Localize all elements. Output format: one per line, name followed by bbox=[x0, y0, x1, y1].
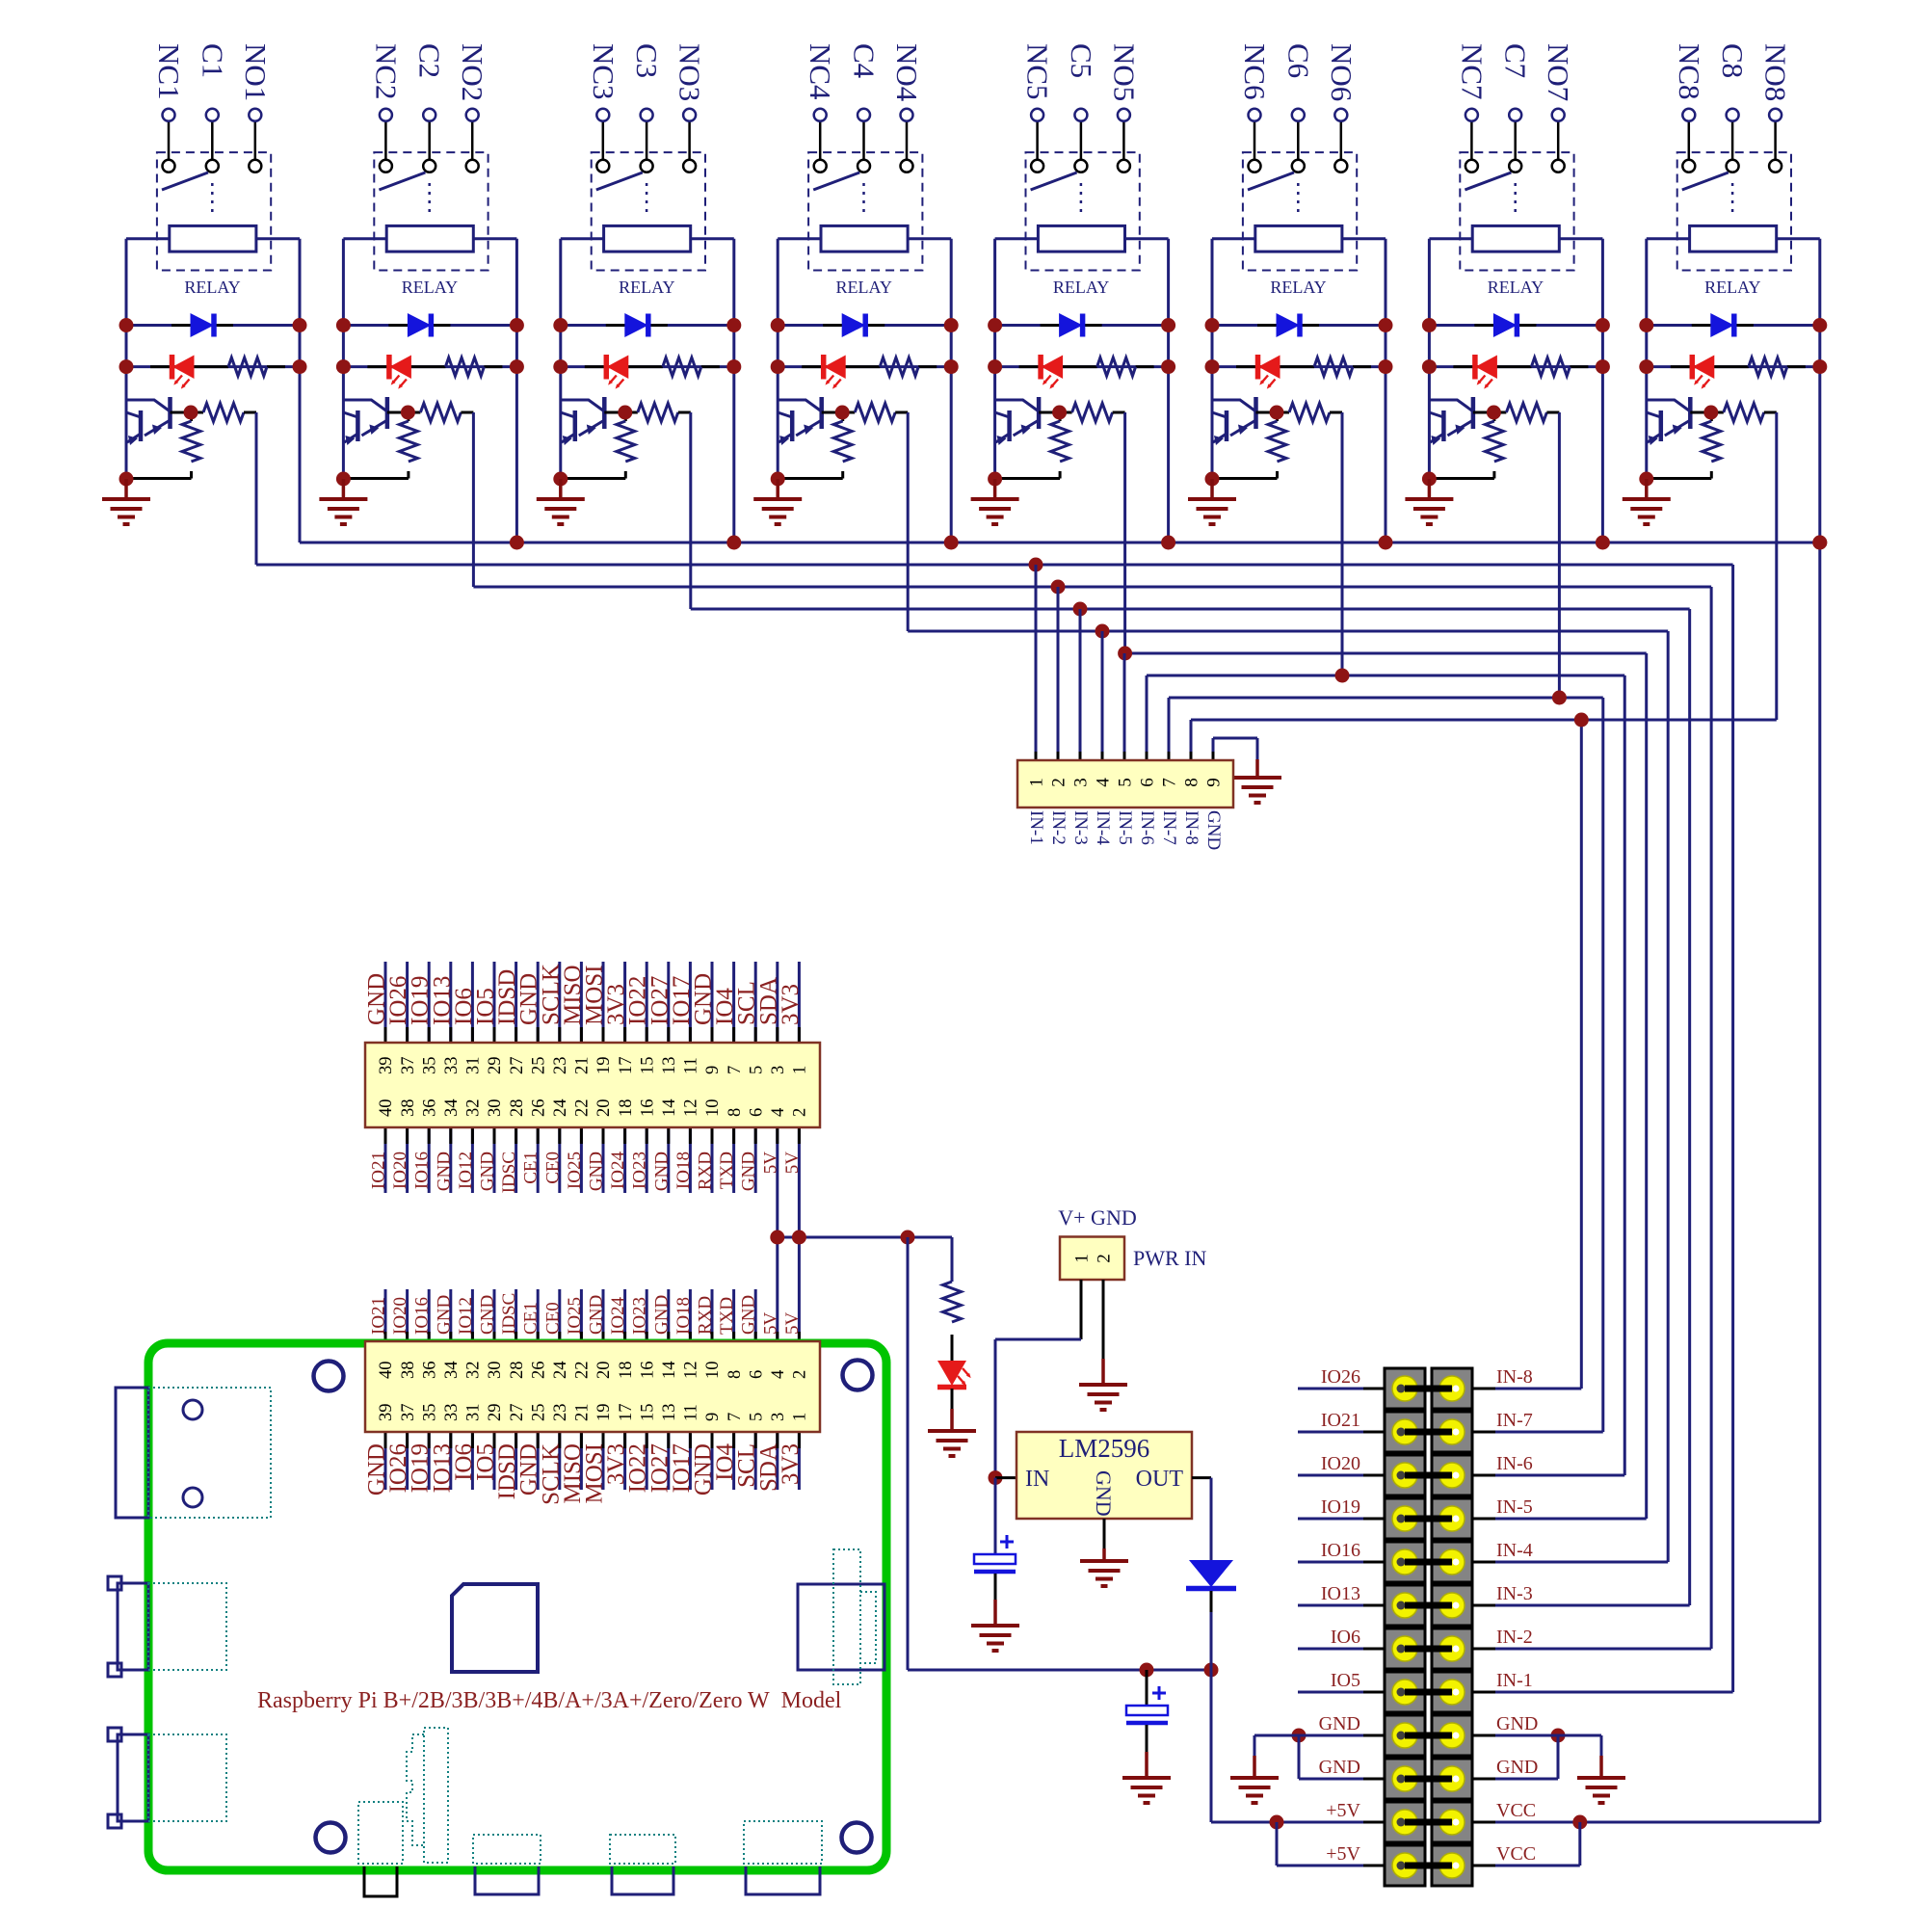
svg-text:GND: GND bbox=[478, 1151, 498, 1191]
svg-text:CE1: CE1 bbox=[521, 1151, 541, 1184]
svg-text:IO20: IO20 bbox=[1321, 1453, 1360, 1474]
svg-text:4: 4 bbox=[769, 1370, 788, 1379]
svg-text:38: 38 bbox=[399, 1099, 418, 1118]
svg-text:2: 2 bbox=[791, 1108, 810, 1117]
svg-text:9: 9 bbox=[703, 1413, 723, 1421]
svg-text:GND: GND bbox=[587, 1151, 607, 1191]
svg-text:34: 34 bbox=[442, 1099, 462, 1118]
svg-text:30: 30 bbox=[486, 1099, 505, 1118]
svg-text:NC7: NC7 bbox=[1455, 43, 1489, 100]
svg-text:5V: 5V bbox=[782, 1151, 803, 1175]
svg-text:NO6: NO6 bbox=[1325, 43, 1359, 101]
svg-text:IO12: IO12 bbox=[456, 1297, 476, 1335]
svg-text:3: 3 bbox=[1071, 778, 1092, 787]
svg-text:GND: GND bbox=[1092, 1470, 1116, 1517]
svg-text:IO12: IO12 bbox=[456, 1151, 476, 1189]
svg-text:GND: GND bbox=[1496, 1713, 1538, 1734]
svg-text:IN-8: IN-8 bbox=[1181, 810, 1201, 845]
svg-text:NC8: NC8 bbox=[1673, 43, 1706, 100]
svg-text:16: 16 bbox=[638, 1362, 657, 1380]
svg-text:NO1: NO1 bbox=[239, 43, 273, 101]
svg-text:IO16: IO16 bbox=[412, 1297, 433, 1335]
svg-text:IN-6: IN-6 bbox=[1496, 1453, 1533, 1474]
svg-text:35: 35 bbox=[420, 1404, 439, 1422]
svg-text:23: 23 bbox=[551, 1057, 570, 1075]
svg-text:C3: C3 bbox=[630, 43, 664, 78]
svg-text:GND: GND bbox=[587, 1295, 607, 1335]
svg-text:2: 2 bbox=[1049, 778, 1069, 787]
svg-text:18: 18 bbox=[617, 1099, 636, 1118]
svg-text:34: 34 bbox=[442, 1362, 462, 1380]
svg-text:22: 22 bbox=[573, 1362, 593, 1380]
svg-text:IO24: IO24 bbox=[608, 1151, 628, 1190]
svg-text:7: 7 bbox=[726, 1413, 745, 1421]
svg-text:19: 19 bbox=[594, 1404, 614, 1422]
svg-text:40: 40 bbox=[377, 1362, 396, 1380]
svg-text:37: 37 bbox=[399, 1057, 418, 1075]
svg-text:26: 26 bbox=[529, 1099, 548, 1118]
svg-text:IN: IN bbox=[1025, 1467, 1049, 1492]
svg-text:8: 8 bbox=[1182, 778, 1202, 787]
svg-text:39: 39 bbox=[377, 1057, 396, 1075]
svg-text:38: 38 bbox=[399, 1362, 418, 1380]
svg-text:20: 20 bbox=[594, 1099, 614, 1118]
svg-text:RXD: RXD bbox=[696, 1296, 716, 1335]
svg-text:IO13: IO13 bbox=[1321, 1583, 1360, 1604]
svg-text:1: 1 bbox=[791, 1413, 810, 1421]
svg-text:39: 39 bbox=[377, 1404, 396, 1422]
svg-text:+5V: +5V bbox=[1326, 1800, 1360, 1821]
svg-text:36: 36 bbox=[420, 1362, 439, 1380]
svg-text:C8: C8 bbox=[1716, 43, 1750, 78]
svg-text:TXD: TXD bbox=[717, 1151, 737, 1189]
svg-text:IN-5: IN-5 bbox=[1496, 1496, 1533, 1518]
svg-text:IN-3: IN-3 bbox=[1496, 1583, 1533, 1604]
svg-text:IN-2: IN-2 bbox=[1496, 1627, 1533, 1648]
svg-text:8: 8 bbox=[726, 1108, 745, 1117]
svg-text:IO18: IO18 bbox=[673, 1151, 694, 1189]
svg-text:C1: C1 bbox=[196, 43, 229, 78]
svg-text:GND: GND bbox=[1203, 810, 1224, 850]
svg-text:28: 28 bbox=[508, 1099, 527, 1118]
svg-text:LM2596: LM2596 bbox=[1059, 1434, 1150, 1463]
svg-text:5V: 5V bbox=[760, 1312, 780, 1336]
svg-text:NO5: NO5 bbox=[1107, 43, 1141, 101]
svg-text:IN-4: IN-4 bbox=[1093, 810, 1113, 845]
svg-text:IO16: IO16 bbox=[412, 1151, 433, 1189]
svg-text:IO18: IO18 bbox=[673, 1297, 694, 1335]
svg-text:IO26: IO26 bbox=[1321, 1366, 1360, 1388]
svg-text:IO25: IO25 bbox=[565, 1151, 585, 1189]
svg-text:2: 2 bbox=[1095, 1254, 1115, 1263]
svg-text:26: 26 bbox=[529, 1362, 548, 1380]
svg-text:GND: GND bbox=[1319, 1757, 1360, 1778]
svg-text:TXD: TXD bbox=[717, 1297, 737, 1335]
svg-text:IN-7: IN-7 bbox=[1496, 1410, 1533, 1431]
svg-text:22: 22 bbox=[573, 1099, 593, 1118]
svg-text:25: 25 bbox=[529, 1404, 548, 1422]
svg-text:12: 12 bbox=[682, 1099, 701, 1118]
svg-text:IDSC: IDSC bbox=[499, 1151, 519, 1193]
svg-text:IO23: IO23 bbox=[630, 1297, 650, 1335]
svg-text:NC6: NC6 bbox=[1238, 43, 1272, 100]
svg-text:IO21: IO21 bbox=[369, 1151, 389, 1189]
svg-text:4: 4 bbox=[769, 1108, 788, 1117]
svg-text:IO24: IO24 bbox=[608, 1296, 628, 1335]
svg-text:5: 5 bbox=[1116, 778, 1136, 787]
svg-text:9: 9 bbox=[1204, 778, 1225, 787]
svg-text:11: 11 bbox=[682, 1057, 701, 1074]
svg-text:GND: GND bbox=[434, 1151, 454, 1191]
svg-text:16: 16 bbox=[638, 1099, 657, 1118]
svg-text:VCC: VCC bbox=[1496, 1843, 1536, 1865]
svg-text:14: 14 bbox=[660, 1362, 679, 1380]
svg-text:15: 15 bbox=[638, 1057, 657, 1075]
svg-text:CE1: CE1 bbox=[521, 1302, 541, 1335]
svg-text:GND: GND bbox=[739, 1151, 759, 1191]
svg-text:IO16: IO16 bbox=[1321, 1540, 1360, 1561]
svg-text:C5: C5 bbox=[1065, 43, 1098, 78]
svg-text:4: 4 bbox=[1094, 778, 1114, 787]
svg-text:GND: GND bbox=[651, 1295, 672, 1335]
svg-text:CE0: CE0 bbox=[542, 1302, 563, 1335]
svg-text:IN-5: IN-5 bbox=[1115, 810, 1135, 845]
svg-text:32: 32 bbox=[464, 1362, 484, 1380]
svg-text:NC5: NC5 bbox=[1021, 43, 1055, 100]
svg-text:GND: GND bbox=[478, 1295, 498, 1335]
svg-text:36: 36 bbox=[420, 1099, 439, 1118]
svg-text:6: 6 bbox=[1138, 778, 1158, 787]
svg-text:NO8: NO8 bbox=[1759, 43, 1793, 101]
svg-text:1: 1 bbox=[1027, 778, 1047, 787]
svg-text:PWR IN: PWR IN bbox=[1133, 1246, 1207, 1270]
svg-text:37: 37 bbox=[399, 1404, 418, 1422]
svg-text:10: 10 bbox=[703, 1099, 723, 1118]
svg-text:25: 25 bbox=[529, 1057, 548, 1075]
svg-text:IO21: IO21 bbox=[369, 1297, 389, 1335]
svg-text:IO25: IO25 bbox=[565, 1297, 585, 1335]
svg-text:NO7: NO7 bbox=[1542, 43, 1575, 101]
svg-text:23: 23 bbox=[551, 1404, 570, 1422]
svg-text:IO6: IO6 bbox=[1331, 1627, 1360, 1648]
svg-text:VCC: VCC bbox=[1496, 1800, 1536, 1821]
svg-text:NC1: NC1 bbox=[152, 43, 186, 100]
svg-text:15: 15 bbox=[638, 1404, 657, 1422]
svg-text:7: 7 bbox=[726, 1066, 745, 1074]
svg-text:IO20: IO20 bbox=[390, 1151, 410, 1189]
svg-text:14: 14 bbox=[660, 1099, 679, 1118]
svg-text:3V3: 3V3 bbox=[778, 984, 804, 1025]
svg-text:27: 27 bbox=[508, 1404, 527, 1422]
svg-text:IN-6: IN-6 bbox=[1137, 810, 1157, 845]
svg-text:NC3: NC3 bbox=[587, 43, 620, 100]
svg-text:IN-3: IN-3 bbox=[1070, 810, 1091, 845]
svg-text:GND: GND bbox=[434, 1295, 454, 1335]
svg-text:C6: C6 bbox=[1281, 43, 1315, 78]
svg-text:5V: 5V bbox=[760, 1151, 780, 1175]
svg-text:17: 17 bbox=[617, 1404, 636, 1422]
svg-text:IN-1: IN-1 bbox=[1496, 1670, 1533, 1691]
svg-text:2: 2 bbox=[791, 1370, 810, 1379]
svg-text:7: 7 bbox=[1160, 778, 1180, 787]
svg-text:NC4: NC4 bbox=[804, 43, 837, 100]
svg-text:1: 1 bbox=[1072, 1254, 1093, 1263]
svg-text:C2: C2 bbox=[413, 43, 447, 78]
svg-text:32: 32 bbox=[464, 1099, 484, 1118]
svg-text:21: 21 bbox=[573, 1057, 593, 1075]
svg-text:11: 11 bbox=[682, 1404, 701, 1421]
svg-text:OUT: OUT bbox=[1136, 1467, 1184, 1492]
svg-text:C7: C7 bbox=[1499, 43, 1533, 78]
svg-text:5V: 5V bbox=[782, 1312, 803, 1336]
svg-text:3V3: 3V3 bbox=[778, 1443, 804, 1485]
svg-text:28: 28 bbox=[508, 1362, 527, 1380]
svg-text:RXD: RXD bbox=[696, 1151, 716, 1190]
svg-text:35: 35 bbox=[420, 1057, 439, 1075]
svg-text:GND: GND bbox=[1496, 1757, 1538, 1778]
svg-text:3: 3 bbox=[769, 1413, 788, 1421]
svg-text:+5V: +5V bbox=[1326, 1843, 1360, 1865]
svg-text:NO2: NO2 bbox=[456, 43, 489, 101]
svg-text:5: 5 bbox=[747, 1066, 766, 1074]
svg-text:33: 33 bbox=[442, 1404, 462, 1422]
svg-text:9: 9 bbox=[703, 1066, 723, 1074]
svg-text:31: 31 bbox=[464, 1404, 484, 1422]
svg-text:CE0: CE0 bbox=[542, 1151, 563, 1184]
svg-text:24: 24 bbox=[551, 1362, 570, 1380]
svg-text:GND: GND bbox=[739, 1295, 759, 1335]
svg-text:6: 6 bbox=[747, 1108, 766, 1117]
svg-text:10: 10 bbox=[703, 1362, 723, 1380]
svg-text:13: 13 bbox=[660, 1057, 679, 1075]
svg-text:29: 29 bbox=[486, 1057, 505, 1075]
svg-text:40: 40 bbox=[377, 1099, 396, 1118]
svg-text:12: 12 bbox=[682, 1362, 701, 1380]
svg-text:IN-4: IN-4 bbox=[1496, 1540, 1533, 1561]
svg-text:IN-7: IN-7 bbox=[1159, 810, 1179, 845]
svg-text:29: 29 bbox=[486, 1404, 505, 1422]
svg-text:IDSC: IDSC bbox=[499, 1293, 519, 1335]
svg-text:IN-2: IN-2 bbox=[1048, 810, 1069, 845]
svg-text:IN-8: IN-8 bbox=[1496, 1366, 1533, 1388]
svg-text:IO20: IO20 bbox=[390, 1297, 410, 1335]
svg-text:31: 31 bbox=[464, 1057, 484, 1075]
svg-text:19: 19 bbox=[594, 1057, 614, 1075]
svg-text:IO19: IO19 bbox=[1321, 1496, 1360, 1518]
svg-text:NO4: NO4 bbox=[890, 43, 924, 102]
svg-text:GND: GND bbox=[651, 1151, 672, 1191]
svg-text:Raspberry Pi B+/2B/3B/3B+/4B/A: Raspberry Pi B+/2B/3B/3B+/4B/A+/3A+/Zero… bbox=[257, 1688, 842, 1713]
svg-text:13: 13 bbox=[660, 1404, 679, 1422]
svg-text:18: 18 bbox=[617, 1362, 636, 1380]
svg-text:IO5: IO5 bbox=[1331, 1670, 1360, 1691]
svg-text:21: 21 bbox=[573, 1404, 593, 1422]
svg-text:6: 6 bbox=[747, 1370, 766, 1379]
svg-text:1: 1 bbox=[791, 1066, 810, 1074]
svg-text:20: 20 bbox=[594, 1362, 614, 1380]
svg-text:IN-1: IN-1 bbox=[1026, 810, 1046, 845]
svg-text:27: 27 bbox=[508, 1057, 527, 1075]
svg-text:5: 5 bbox=[747, 1413, 766, 1421]
svg-text:C4: C4 bbox=[848, 43, 882, 79]
svg-text:17: 17 bbox=[617, 1057, 636, 1075]
svg-text:3: 3 bbox=[769, 1066, 788, 1074]
svg-text:33: 33 bbox=[442, 1057, 462, 1075]
svg-text:IO21: IO21 bbox=[1321, 1410, 1360, 1431]
svg-text:GND: GND bbox=[1319, 1713, 1360, 1734]
svg-text:24: 24 bbox=[551, 1099, 570, 1118]
svg-text:NC2: NC2 bbox=[369, 43, 403, 100]
svg-text:V+ GND: V+ GND bbox=[1058, 1205, 1136, 1230]
svg-text:NO3: NO3 bbox=[673, 43, 707, 101]
svg-text:8: 8 bbox=[726, 1370, 745, 1379]
svg-text:30: 30 bbox=[486, 1362, 505, 1380]
svg-text:IO23: IO23 bbox=[630, 1151, 650, 1189]
